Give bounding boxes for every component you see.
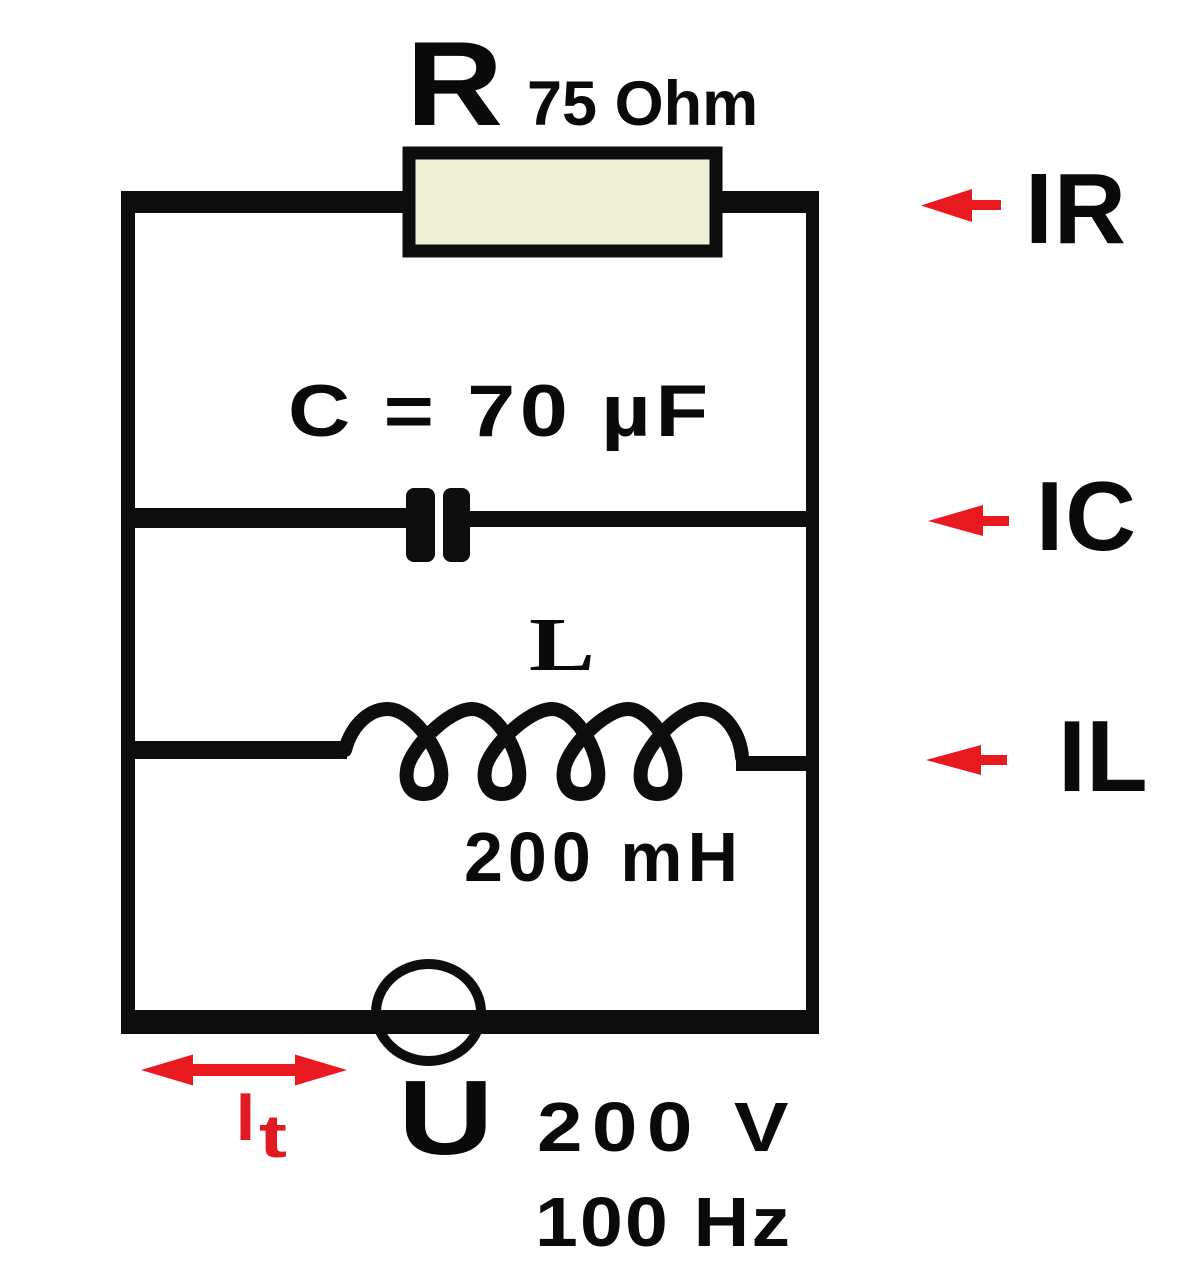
wire: right vertical [806,191,819,1034]
wire: inductor branch left [135,741,347,759]
capacitor C right plate [443,488,470,562]
wire: inductor branch right stub [736,756,806,771]
label It (red): I [236,1083,255,1151]
arrow IL (red, points left) [926,745,1007,775]
label 200 V [537,1092,798,1162]
label IL [1058,707,1148,808]
inductor L coil [345,709,742,794]
label IR [1025,159,1127,259]
arrow IC (red, points left) [928,505,1009,536]
label U [398,1065,494,1171]
capacitor C left plate [406,488,435,562]
wire: bottom horizontal [121,1010,819,1034]
arrow It (red, double-headed) [141,1055,347,1086]
label L [529,607,595,683]
wire: capacitor branch right [465,511,806,527]
label It (red): t subscript [259,1107,287,1167]
wire: top horizontal [121,191,819,213]
label 75 Ohm [527,73,758,136]
label R [406,24,503,144]
label 100 Hz [535,1187,792,1257]
wire: capacitor branch left [135,508,411,528]
arrow IR (red, points left) [921,189,1001,222]
AC source U circle [376,964,481,1061]
wire: left vertical [121,191,135,1034]
resistor R body (75 Ohm) [409,153,716,251]
label 200 mH [464,822,743,892]
label IC [1036,467,1138,565]
label C = 70 uF [288,375,713,448]
